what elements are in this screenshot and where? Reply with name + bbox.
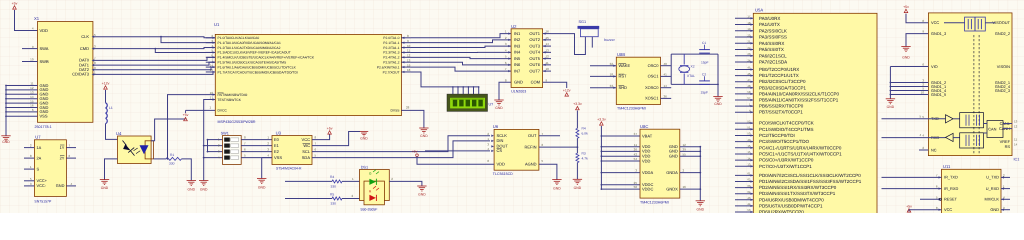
- svg-text:GND: GND: [714, 102, 722, 106]
- svg-text:PD2/AIN5/SSI1RX/SSI3RX/WT3CCP0: PD2/AIN5/SSI1RX/SSI3RX/WT3CCP0: [759, 185, 837, 190]
- svg-text:15pF: 15pF: [701, 60, 709, 64]
- svg-text:PD4/U6RX/USB0DM/WT4CCP0: PD4/U6RX/USB0DM/WT4CCP0: [759, 197, 824, 202]
- svg-text:SG1: SG1: [579, 20, 587, 24]
- svg-text:OUT3: OUT3: [529, 43, 540, 48]
- wire U6 REFIN to divider: [539, 146, 578, 148]
- wires +3.3v to U8C pins: [601, 135, 640, 137]
- wire IR_RXD: [882, 188, 942, 190]
- svg-text:COM: COM: [531, 80, 540, 85]
- resistor R3 4.7k: [576, 153, 579, 162]
- svg-text:PB7/SSI2TX/T0CCP1: PB7/SSI2TX/T0CCP1: [759, 110, 803, 115]
- svg-text:TEST/SBWTCK: TEST/SBWTCK: [218, 98, 242, 102]
- svg-text:PA2/SSI0CLK: PA2/SSI0CLK: [759, 28, 787, 33]
- isolation barrier: [973, 35, 975, 154]
- svg-text:PD3/AIN4/SSI1TX/SSI3TX/WT3CCP1: PD3/AIN4/SSI1TX/SSI3TX/WT3CCP1: [759, 191, 836, 196]
- wire SDA: [312, 141, 490, 158]
- svg-text:VDDA: VDDA: [642, 170, 653, 175]
- wire to U6 CS: [425, 150, 490, 152]
- wire U3 WC to ground: [312, 132, 360, 146]
- wire U6 OUT stub: [539, 135, 560, 137]
- svg-text:SWB: SWB: [40, 59, 49, 64]
- svg-text:+5v: +5v: [903, 5, 909, 9]
- ground IC1 left: [901, 46, 910, 48]
- wire SW1 bus: [207, 140, 209, 152]
- resistor R4 330: [332, 180, 342, 183]
- svg-text:SW1: SW1: [221, 132, 229, 136]
- svg-text:DS1: DS1: [361, 166, 368, 170]
- svg-text:54: 54: [634, 157, 638, 161]
- svg-text:GND: GND: [56, 183, 65, 188]
- wire IC1 GND1_3 to ground: [906, 34, 928, 47]
- wire SCL: [312, 136, 490, 152]
- svg-text:PB0/T2CCP0/U1RX: PB0/T2CCP0/U1RX: [759, 67, 799, 72]
- svg-text:GND1_5: GND1_5: [931, 92, 946, 97]
- svg-text:P2.5/TA1.2: P2.5/TA1.2: [383, 61, 399, 65]
- svg-text:2Y: 2Y: [60, 155, 65, 160]
- svg-text:+5v: +5v: [327, 127, 333, 131]
- svg-text:CD/DAT3: CD/DAT3: [72, 72, 90, 77]
- svg-text:VISOOUT: VISOOUT: [992, 20, 1010, 25]
- svg-text:E1: E1: [274, 143, 280, 148]
- svg-text:GND2_3: GND2_3: [995, 88, 1010, 93]
- svg-text:X1: X1: [34, 16, 40, 21]
- svg-text:11: 11: [1014, 138, 1017, 142]
- wire IR_TXD: [882, 176, 942, 178]
- svg-text:PD0/AIN7/I2C3SCL/SSI1CLK/SSI3C: PD0/AIN7/I2C3SCL/SSI1CLK/SSI3CLK/WT2CCP0: [759, 173, 861, 178]
- svg-text:PA4/SSI0RX: PA4/SSI0RX: [759, 41, 784, 46]
- svg-text:VCC: VCC: [302, 137, 311, 142]
- svg-text:P1.2/TA0.1/UCA0TXD/UCA0SIMO/A2: P1.2/TA0.1/UCA0TXD/UCA0SIMO/A2/CA2: [218, 46, 281, 50]
- wires LCD data pins: [452, 87, 454, 94]
- svg-text:TM4C1233H6PMI: TM4C1233H6PMI: [617, 107, 646, 111]
- svg-text:OUT1: OUT1: [529, 31, 540, 36]
- svg-text:R4: R4: [582, 127, 586, 131]
- svg-text:U_RXD: U_RXD: [986, 186, 999, 191]
- svg-text:PA5/SSI0TX: PA5/SSI0TX: [759, 47, 784, 52]
- svg-text:PA1/U0TX: PA1/U0TX: [759, 22, 780, 27]
- svg-text:R5: R5: [330, 192, 334, 196]
- mcu U1 MSP430G2553: [215, 34, 401, 115]
- svg-text:+5v: +5v: [906, 205, 912, 209]
- svg-text:GND1_3: GND1_3: [931, 31, 946, 36]
- svg-text:P2.2/TA1.1: P2.2/TA1.1: [383, 46, 399, 50]
- svg-text:GND: GND: [902, 56, 910, 60]
- svg-text:IN2: IN2: [514, 37, 521, 42]
- svg-text:IN5: IN5: [514, 56, 521, 61]
- svg-text:R4: R4: [330, 175, 334, 179]
- wire U3 VCC to +5v: [312, 135, 330, 140]
- svg-text:IN4: IN4: [514, 50, 521, 55]
- buffer TXD: [928, 118, 945, 120]
- svg-text:P1.6/TA0.1/A6/CA6/UCB0SOMI/UCB: P1.6/TA0.1/A6/CA6/UCB0SOMI/UCB0SCL/TDI/T…: [218, 65, 297, 69]
- connector X1: [38, 22, 93, 123]
- ground LCD/U2: [494, 99, 503, 101]
- svg-text:P1.7/A7/CA7/CAOUT/UCB0SIMO/UCB: P1.7/A7/CA7/CAOUT/UCB0SIMO/UCB0SDA/TDO/T…: [218, 70, 298, 74]
- wire U1 RST net: [168, 95, 216, 159]
- svg-text:OUT5: OUT5: [529, 56, 540, 61]
- crystal X2: [683, 54, 685, 64]
- svg-text:XOSC0: XOSC0: [645, 85, 659, 90]
- svg-text:VBAT: VBAT: [642, 133, 653, 138]
- dip switch SW1: [223, 136, 242, 165]
- wire +12v to L1: [105, 90, 107, 103]
- svg-text:OSC1: OSC1: [648, 74, 660, 79]
- wires U8C GND pins: [680, 146, 701, 148]
- resistor R1: [166, 157, 182, 160]
- svg-text:4.7k: 4.7k: [582, 156, 589, 160]
- svg-text:15pF: 15pF: [701, 91, 709, 95]
- svg-text:PC6/C0+/U3RX/WT1CCP0: PC6/C0+/U3RX/WT1CCP0: [759, 158, 814, 163]
- svg-text:1Y: 1Y: [60, 145, 65, 150]
- wire buzzer right leg: [591, 37, 593, 48]
- svg-text:PA3/SSI0FSS: PA3/SSI0FSS: [759, 35, 787, 40]
- wire U4 LED cathode to ground: [105, 159, 118, 180]
- uart-ir U11: [942, 169, 1002, 213]
- wire U6 AGND to ground: [539, 164, 557, 179]
- wire to R4: [285, 180, 332, 182]
- wire RESET: [920, 198, 939, 200]
- svg-text:NC: NC: [931, 147, 937, 152]
- svg-text:GND2_2: GND2_2: [995, 31, 1010, 36]
- svg-text:PA7/I2C1SDA: PA7/I2C1SDA: [759, 60, 787, 65]
- svg-text:IN1: IN1: [514, 31, 521, 36]
- resistor R2 6.8k: [576, 128, 579, 138]
- svg-text:PD5/U6TX/USB0DP/WT4CCP1: PD5/U6TX/USB0DP/WT4CCP1: [759, 203, 823, 208]
- wire X1 SWB stub: [22, 61, 38, 63]
- mcu U5A TM4C1233 gpio: [753, 13, 877, 213]
- svg-text:SWA: SWA: [40, 46, 49, 51]
- svg-text:U5A: U5A: [755, 8, 763, 13]
- svg-text:U1: U1: [214, 22, 220, 27]
- svg-text:OUT4: OUT4: [529, 50, 540, 55]
- svg-text:CMD: CMD: [80, 46, 89, 51]
- ground DVSS: [419, 127, 428, 129]
- lcd module: [447, 94, 488, 111]
- svg-text:E2: E2: [274, 149, 280, 154]
- svg-text:R3: R3: [582, 151, 586, 155]
- svg-text:L1: L1: [109, 106, 113, 110]
- svg-text:U8B: U8B: [617, 52, 625, 57]
- wire DAT3: [93, 72, 215, 74]
- svg-text:PB3/I2C0SDA/T3CCP1: PB3/I2C0SDA/T3CCP1: [759, 85, 807, 90]
- svg-text:VDD: VDD: [40, 28, 49, 33]
- coupler TXD: [960, 113, 984, 128]
- svg-text:ULN2003: ULN2003: [511, 89, 526, 93]
- svg-text:RESET: RESET: [944, 197, 958, 202]
- svg-text:IR_RXD: IR_RXD: [944, 186, 958, 191]
- svg-text:VIO: VIO: [931, 64, 938, 69]
- svg-text:6.8k: 6.8k: [582, 132, 589, 136]
- svg-text:IN7: IN7: [514, 68, 521, 73]
- driver U2 ULN2003: [511, 29, 542, 88]
- led DS1: [360, 170, 390, 201]
- svg-text:13: 13: [1014, 120, 1018, 124]
- mcu U8B TM4C1233 osc: [616, 57, 660, 104]
- svg-text:CLK: CLK: [81, 34, 89, 39]
- svg-text:PB1/T2CCP1/U1TX: PB1/T2CCP1/U1TX: [759, 73, 799, 78]
- svg-text:VDDC: VDDC: [642, 186, 653, 191]
- ground bus X1 GND pins: [5, 86, 7, 136]
- ground X1: [1, 135, 10, 137]
- svg-text:+3.3v: +3.3v: [597, 118, 606, 122]
- wire U4 emitter to R1: [154, 158, 167, 160]
- svg-text:IN6: IN6: [514, 62, 521, 67]
- wire crystal net: [670, 54, 672, 84]
- optocoupler U4: [118, 136, 152, 164]
- svg-text:CAN: CAN: [988, 127, 996, 132]
- svg-text:GND: GND: [101, 186, 109, 190]
- svg-text:14: 14: [1014, 143, 1018, 147]
- wire DS1 to ground: [389, 181, 422, 186]
- svg-text:VCC-: VCC-: [37, 183, 47, 188]
- wire U2 GND pin to ground: [499, 82, 511, 100]
- wire R2 to R3: [576, 138, 578, 153]
- svg-text:U8C: U8C: [640, 124, 648, 129]
- svg-text:PB5/AIN11/CAN0TX/SSI2FSS/T1CCP: PB5/AIN11/CAN0TX/SSI2FSS/T1CCP1: [759, 98, 839, 103]
- pin NC: [919, 149, 928, 151]
- ground U3 WC: [360, 131, 368, 133]
- svg-text:P1.1/TA0.0/UCA0RXD/UCA0SOMI/A1: P1.1/TA0.0/UCA0RXD/UCA0SOMI/A1/CA1: [218, 41, 282, 45]
- svg-text:+5v: +5v: [412, 149, 418, 153]
- wire to R5: [285, 198, 332, 200]
- svg-text:U3: U3: [276, 131, 282, 136]
- svg-text:P2.7/XOUT: P2.7/XOUT: [383, 70, 400, 74]
- svg-text:AGND: AGND: [525, 162, 537, 167]
- resistor R5 330: [332, 197, 342, 200]
- svg-text:P1.4/SMCLK/UCB0STE/UCA0CLK/A4/: P1.4/SMCLK/UCB0STE/UCA0CLK/A4/VREF+/VERE…: [218, 56, 315, 60]
- svg-text:PD6/U2RX/WT5CCP0: PD6/U2RX/WT5CCP0: [759, 210, 804, 214]
- svg-text:VDD: VDD: [642, 158, 651, 163]
- wire U3 VSS to ground: [262, 157, 272, 159]
- svg-text:PC1/SWDIO/T4CCP1/TMS: PC1/SWDIO/T4CCP1/TMS: [759, 127, 814, 132]
- inductor L1: [106, 103, 108, 124]
- svg-text:P2.4/TA1.2: P2.4/TA1.2: [383, 56, 399, 60]
- wire caps to ground: [717, 54, 719, 96]
- svg-text:PA6/I2C1SCL: PA6/I2C1SCL: [759, 53, 787, 58]
- eeprom U3: [272, 136, 312, 165]
- svg-text:SDA: SDA: [302, 155, 311, 160]
- svg-text:PB6/SSI2RX/T0CCP0: PB6/SSI2RX/T0CCP0: [759, 104, 804, 109]
- svg-text:P1.3/ADC10CLK/A3/VREF-/VEREF-/: P1.3/ADC10CLK/A3/VREF-/VEREF-/CA3/CAOUT: [218, 51, 291, 55]
- svg-text:PA0/U0RX: PA0/U0RX: [759, 16, 780, 21]
- svg-text:OUT7: OUT7: [529, 68, 540, 73]
- dac U6 TLC5615: [494, 129, 539, 170]
- svg-text:16: 16: [683, 185, 687, 189]
- wire SW1 row taps: [208, 139, 223, 141]
- wire RXD: [882, 137, 929, 139]
- wire DAT2: [93, 67, 215, 70]
- svg-text:OUT2: OUT2: [529, 37, 540, 42]
- coupler RXD: [960, 133, 984, 148]
- transformer IC1: [965, 17, 986, 31]
- svg-text:PD1/AIN6/I2C3SDA/SSI1FSS/SSI3F: PD1/AIN6/I2C3SDA/SSI1FSS/SSI3FSS/WT2CCP1: [759, 179, 862, 184]
- wire DVSS to ground: [401, 110, 424, 128]
- svg-text:VCC: VCC: [931, 20, 939, 25]
- svg-text:2A: 2A: [37, 155, 42, 160]
- svg-text:28: 28: [406, 105, 410, 109]
- svg-text:330: 330: [331, 202, 337, 206]
- svg-text:GND: GND: [553, 187, 561, 191]
- ground U8C: [696, 200, 705, 202]
- ground R1: [187, 180, 196, 182]
- svg-text:U11: U11: [943, 164, 951, 169]
- wire OUT1 to buzzer: [551, 34, 585, 55]
- ground U4: [100, 179, 109, 181]
- wire +5v to IC1 VCC: [906, 14, 928, 23]
- svg-text:DVCC: DVCC: [218, 109, 228, 113]
- svg-text:U2: U2: [511, 24, 517, 29]
- svg-text:VDD: VDD: [497, 162, 506, 167]
- wire +3.3v rail: [600, 126, 602, 189]
- wire P1.1 branch: [160, 36, 162, 38]
- svg-text:PC5/C1+/U1CTS/U1TX/U4TX/WT0CCP: PC5/C1+/U1CTS/U1TX/U4TX/WT0CCP1: [759, 151, 842, 156]
- ground R3: [573, 178, 582, 180]
- svg-text:GND: GND: [669, 154, 678, 159]
- svg-text:X2: X2: [691, 65, 695, 69]
- svg-text:GND: GND: [420, 134, 428, 138]
- ground DS1: [417, 185, 426, 187]
- svg-text:GND: GND: [990, 207, 999, 212]
- svg-text:P2.6/XIN/TA0.1: P2.6/XIN/TA0.1: [377, 65, 400, 69]
- svg-text:U4: U4: [116, 131, 122, 136]
- svg-text:buzzer: buzzer: [604, 38, 616, 42]
- wire +5v to U6 VDD: [417, 157, 494, 165]
- wires SW1 to U3: [241, 139, 272, 141]
- svg-text:+3.3v: +3.3v: [573, 102, 582, 106]
- svg-text:12: 12: [1014, 125, 1018, 129]
- wire U4 collector to +5v: [151, 119, 185, 141]
- svg-text:SCL: SCL: [302, 149, 311, 154]
- wires U1 P2 to U2 IN: [411, 34, 511, 38]
- wire U1 TEST net: [204, 100, 216, 181]
- svg-text:GND: GND: [418, 192, 426, 196]
- wire +5v to X1 VDD: [15, 10, 38, 31]
- svg-text:PC3/SWO/T5CCP1/TDO: PC3/SWO/T5CCP1/TDO: [759, 139, 810, 144]
- svg-text:550-3505F: 550-3505F: [361, 208, 378, 212]
- wire P2.7 to LCD bus: [411, 72, 479, 87]
- can transceiver block: [987, 121, 1003, 138]
- wire VIO: [890, 66, 928, 68]
- svg-text:IC1: IC1: [1014, 158, 1020, 162]
- capacitor C2: [699, 80, 710, 82]
- wire CMD: [93, 48, 215, 49]
- svg-text:U6: U6: [493, 124, 499, 129]
- svg-text:PC0/SWCLK/T4CCP0/TCK: PC0/SWCLK/T4CCP0/TCK: [759, 121, 814, 126]
- svg-text:WC: WC: [303, 143, 310, 148]
- svg-text:PC2/T5CCP0/TDI: PC2/T5CCP0/TDI: [759, 133, 795, 138]
- svg-text:VSS: VSS: [274, 155, 282, 160]
- svg-text:P2.3/TA1.3: P2.3/TA1.3: [383, 51, 399, 55]
- svg-text:TLC5615CD: TLC5615CD: [493, 172, 513, 176]
- ground TEST net: [199, 180, 208, 182]
- svg-text:C1: C1: [702, 41, 706, 45]
- svg-text:2501778-1: 2501778-1: [35, 125, 52, 129]
- svg-text:DIN: DIN: [497, 138, 504, 143]
- svg-text:RS: RS: [1005, 144, 1011, 149]
- wire L1 to U4: [106, 124, 118, 140]
- svg-text:PB4/AIN10/CAN0RX/SSI2CLK/T1CCP: PB4/AIN10/CAN0RX/SSI2CLK/T1CCP0: [759, 91, 840, 96]
- svg-text:U?: U?: [489, 102, 494, 106]
- svg-text:1A: 1A: [37, 145, 42, 150]
- svg-text:VSS: VSS: [40, 114, 48, 119]
- svg-text:GND: GND: [200, 187, 208, 191]
- svg-text:RST: RST: [619, 74, 628, 79]
- svg-text:IR_TXD: IR_TXD: [944, 175, 958, 180]
- svg-text:VCC: VCC: [944, 207, 952, 212]
- svg-text:SN75157P: SN75157P: [34, 200, 52, 204]
- svg-text:PC7/C0-/U3TX/WT1CCP1: PC7/C0-/U3TX/WT1CCP1: [759, 164, 812, 169]
- wire CMD branch P1.3: [154, 48, 156, 50]
- wire DVCC to +5v: [186, 109, 216, 111]
- svg-text:PB2/I2C0SCL/T3CCP0: PB2/I2C0SCL/T3CCP0: [759, 79, 806, 84]
- svg-text:37: 37: [634, 132, 638, 136]
- wire COM to +12v: [543, 82, 567, 88]
- wire R5 to DS1: [342, 198, 364, 200]
- svg-text:XOSC1: XOSC1: [645, 96, 659, 101]
- svg-text:OUT6: OUT6: [529, 62, 540, 67]
- svg-text:+12v: +12v: [563, 89, 571, 93]
- svg-text:REFIN: REFIN: [525, 144, 537, 149]
- wire DAT1: [93, 62, 215, 65]
- svg-text:E0: E0: [274, 137, 280, 142]
- wires IC1 GND1 bus: [890, 82, 928, 84]
- buzzer SG1: [578, 26, 600, 29]
- svg-text:GND: GND: [188, 187, 196, 191]
- svg-text:+5v: +5v: [183, 113, 189, 117]
- svg-text:+5v: +5v: [12, 2, 18, 6]
- svg-text:R1: R1: [170, 153, 174, 157]
- wire R3 to ground: [576, 163, 578, 180]
- wire TXD: [882, 118, 929, 120]
- receiver U7: [34, 140, 66, 197]
- ground U3 VSS: [257, 178, 266, 180]
- svg-text:GNDX: GNDX: [666, 186, 678, 191]
- svg-text:+12v: +12v: [102, 82, 110, 86]
- wire CLK: [93, 37, 215, 38]
- buffer RXD: [928, 137, 945, 139]
- svg-text:TM4C1233H6PMI: TM4C1233H6PMI: [640, 200, 669, 204]
- svg-text:GND: GND: [574, 186, 582, 190]
- svg-text:S: S: [37, 166, 40, 171]
- svg-text:SHD: SHD: [619, 85, 628, 90]
- svg-text:PC4/C1-/U1RTS/U1RX/U4RX/WT0CCP: PC4/C1-/U1RTS/U1RX/U4RX/WT0CCP0: [759, 145, 842, 150]
- svg-text:GND: GND: [495, 106, 503, 110]
- svg-text:GND: GND: [2, 140, 10, 144]
- svg-text:WAKE: WAKE: [619, 63, 631, 68]
- wire DAT0: [93, 57, 215, 60]
- svg-text:OSC0: OSC0: [648, 63, 660, 68]
- svg-text:IN3: IN3: [514, 43, 521, 48]
- svg-text:GND: GND: [514, 80, 523, 85]
- svg-text:P2.0/TA1.0: P2.0/TA1.0: [383, 36, 399, 40]
- wire X1 SWA stub: [22, 48, 38, 50]
- svg-text:330: 330: [331, 185, 337, 189]
- svg-text:RST/NMI/SBWTDIO: RST/NMI/SBWTDIO: [218, 93, 248, 97]
- wire +3.3v to R2: [576, 111, 578, 129]
- svg-text:DVSS: DVSS: [391, 109, 401, 113]
- svg-text:U_TXD: U_TXD: [986, 175, 999, 180]
- svg-text:U7: U7: [35, 134, 41, 139]
- svg-text:GND: GND: [697, 207, 705, 211]
- wire R1 to ground: [182, 159, 192, 181]
- svg-text:OUT: OUT: [528, 133, 537, 138]
- svg-text:CS: CS: [497, 148, 503, 153]
- svg-text:P1.0/TA0CLK/ACLK/A0/CA0: P1.0/TA0CLK/ACLK/A0/CA0: [218, 36, 260, 40]
- svg-text:P2.1/TA1.1: P2.1/TA1.1: [383, 41, 399, 45]
- svg-text:GND: GND: [258, 185, 266, 189]
- svg-text:MSP430G2553IPW28R: MSP430G2553IPW28R: [218, 120, 256, 124]
- svg-text:ST54/M24C04-R: ST54/M24C04-R: [276, 167, 302, 171]
